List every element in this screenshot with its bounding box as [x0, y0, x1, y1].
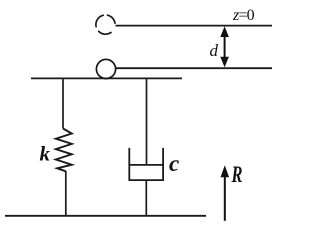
spring k	[56, 129, 72, 172]
damper piston rod	[146, 79, 148, 166]
damper cylinder (cup)	[129, 148, 163, 180]
release-height line	[115, 67, 272, 69]
svg-text:z=0: z=0	[232, 7, 255, 24]
dimension arrow d (double-headed)	[220, 26, 229, 67]
svg-text:R: R	[231, 162, 243, 187]
platform line	[31, 77, 182, 79]
svg-text:d: d	[210, 41, 219, 60]
spring top rod	[62, 79, 64, 129]
damper bottom rod	[145, 180, 147, 216]
ball on platform	[96, 59, 115, 78]
dashed circle (ball initial position)	[96, 15, 115, 34]
svg-text:c: c	[169, 151, 179, 176]
svg-text:k: k	[40, 142, 51, 166]
spring bottom rod	[65, 171, 67, 216]
force arrow R	[221, 165, 230, 221]
damper piston plate	[129, 164, 163, 166]
ground line	[5, 215, 206, 217]
z=0 datum line	[116, 25, 273, 27]
